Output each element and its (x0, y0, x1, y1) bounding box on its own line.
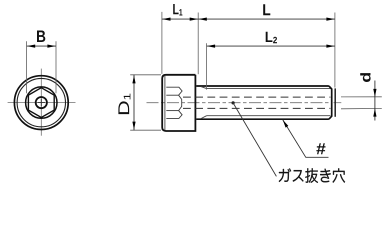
label d (360, 73, 370, 82)
thread root top (207, 88, 331, 90)
extension line L/L2 right (334, 13, 336, 88)
extension line L1/L shared (197, 13, 199, 75)
tip end face edge line (334, 88, 336, 116)
thread runout bottom (201, 116, 207, 119)
dimension line L2 (207, 45, 335, 47)
label hash (316, 143, 325, 154)
thread crest bottom (196, 118, 329, 120)
socket corner line lower (166, 110, 178, 112)
gas vent hole circle (36, 97, 47, 108)
leader dot on vent hole (232, 101, 235, 104)
extension line D1 bottom (130, 129, 161, 131)
leader arrow to thread surface (283, 120, 289, 128)
extension line L2 left (206, 43, 208, 89)
dimension B arrows (27, 45, 35, 48)
shaft end cap (329, 86, 332, 119)
center line stub past tip (334, 102, 342, 104)
socket profile top flat (166, 87, 182, 95)
extension line L1 left (161, 12, 163, 74)
label gas vent hole (ガス抜き穴) (279, 168, 345, 183)
label B (37, 31, 45, 42)
thread root bottom (207, 115, 331, 117)
dimension L1 arrows (162, 18, 170, 21)
dimension L2 arrows (207, 45, 215, 48)
vent hole center cross (38, 99, 45, 106)
thread crest top (196, 85, 329, 87)
hex socket (28, 88, 54, 118)
label L (263, 4, 270, 15)
head chamfer line (164, 76, 166, 130)
center line horizontal (8, 102, 76, 104)
extension line D1 top (130, 74, 161, 76)
head chamfer circle (17, 78, 65, 126)
dimension line L1 (162, 18, 198, 20)
socket cone (179, 95, 182, 110)
leader line to gas vent label (233, 103, 276, 176)
head outer circle (14, 76, 68, 130)
dimension line D1 (133, 75, 135, 130)
socket corner line upper (166, 94, 178, 96)
thread runout top (201, 87, 207, 89)
head outline (162, 75, 195, 131)
vent hole hidden line bottom (183, 107, 330, 109)
label D1 (118, 94, 130, 115)
label L2 (266, 32, 277, 43)
extension line B right (55, 41, 57, 93)
extension line d bottom (341, 107, 382, 109)
extension line B left (26, 41, 28, 93)
dimension d arrows (373, 89, 376, 97)
center line vertical (40, 69, 42, 136)
vent hole hidden line top (183, 96, 330, 98)
socket profile bottom flat (166, 111, 182, 119)
dimension line B (27, 45, 56, 47)
leader line to hash (283, 120, 329, 157)
label L1 (173, 4, 182, 15)
dimension D1 arrows (132, 75, 135, 83)
dimension line d (374, 81, 376, 121)
dimension L arrows (199, 18, 207, 21)
extension line d top (341, 96, 382, 98)
dimension line L (198, 18, 335, 20)
center line (147, 102, 333, 104)
socket chamfer circle (26, 87, 57, 118)
